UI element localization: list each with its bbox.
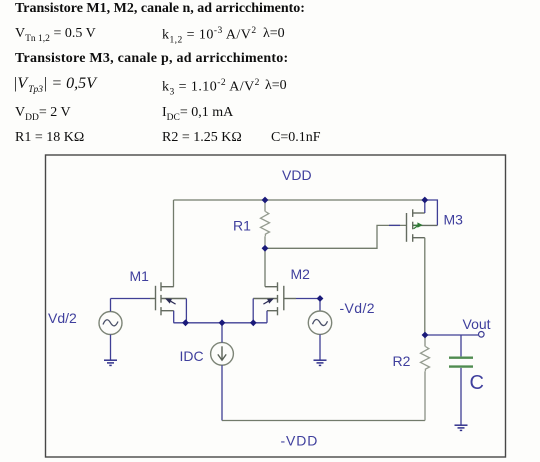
wire M1 bulk down [185, 299, 187, 323]
wire R1 node to M2 drain [264, 248, 266, 286]
wire M1 gate [111, 298, 151, 300]
wire capacitor bottom lead [460, 368, 462, 425]
transistor M3 [407, 209, 438, 242]
arrow M2 bulk (NMOS) [263, 298, 274, 304]
svg-text:R1: R1 [233, 218, 251, 234]
wire M2 bulk down [252, 299, 254, 323]
wire V2 bottom to ground [319, 335, 321, 361]
wire -VDD bottom rail [222, 420, 425, 422]
svg-text:-Vd/2: -Vd/2 [340, 300, 375, 316]
svg-text:-VDD: -VDD [281, 433, 319, 449]
wire M1 drain to rail [173, 200, 175, 287]
wire R1 bottom pin [264, 236, 266, 248]
wire M3 source pin to rail [424, 200, 426, 213]
wire rail corner to M3 bulk [425, 200, 438, 225]
svg-text:VDD: VDD [282, 167, 312, 183]
parameter line 2: VTn [15, 26, 96, 44]
junction node M3 source at rail [421, 197, 428, 204]
parameter line 2: lambda [263, 26, 285, 42]
parameter line 2: k12 [162, 26, 257, 45]
svg-text:Vd/2: Vd/2 [48, 310, 77, 326]
wire capacitor top lead [460, 335, 462, 356]
resistor R2 [421, 347, 430, 372]
parameter line 5: IDC [162, 105, 233, 123]
capacitor C plates (green) [449, 357, 473, 359]
source V2 -Vd/2 [308, 311, 331, 334]
junction node IDC at tail [219, 319, 226, 326]
arrow M1 bulk (NMOS) [165, 298, 176, 304]
wire R2 top pin [424, 335, 426, 347]
svg-text:C: C [470, 372, 484, 394]
resistor R1 [261, 212, 270, 237]
junction node output [422, 332, 429, 339]
wire VDD top rail [174, 199, 425, 201]
wire V1 bottom to ground [110, 335, 112, 360]
title line 1 [15, 1, 305, 17]
title line 3 [15, 51, 288, 67]
wire output node to Vout terminal [425, 334, 478, 336]
wire IDC bottom to -VDD rail [221, 365, 223, 420]
transistor M1 [150, 282, 186, 315]
wire navy segment on M3 gate feed [389, 224, 400, 226]
svg-text:Vout: Vout [463, 316, 491, 332]
svg-text:M2: M2 [291, 266, 311, 282]
junction node M1 bulk at tail [182, 319, 189, 326]
parameter line 6: R1 [15, 130, 84, 146]
svg-text:IDC: IDC [180, 348, 204, 364]
ground of C [455, 425, 468, 430]
wire tail node [174, 322, 268, 324]
parameter line 6: C [271, 130, 321, 146]
arrow M3 bulk (PMOS, green) [413, 222, 423, 228]
wire M1 source down [173, 311, 175, 323]
parameter line 6: R2 [162, 130, 242, 146]
svg-text:M3: M3 [444, 212, 464, 228]
wire M3 drain down to output node [424, 238, 426, 335]
parameter line 4: lambda [265, 78, 287, 94]
wire R2 bottom pin [424, 371, 426, 420]
terminal Vout [479, 332, 485, 338]
junction node R1 bottom [262, 245, 269, 252]
junction node M2 gate / V2 [317, 295, 324, 302]
wire M2 source down [266, 311, 268, 323]
parameter line 4: k3 [162, 78, 260, 97]
svg-text:M1: M1 [130, 268, 150, 284]
wire M2 gate to source V2 [296, 299, 320, 312]
current source IDC [211, 342, 234, 365]
schematic frame [46, 155, 506, 457]
ground of V2 [314, 360, 327, 365]
ground of V1 [104, 360, 117, 365]
junction node R1 top [262, 197, 269, 204]
wire R1 top pin [264, 200, 266, 212]
junction node M2 bulk at tail [250, 319, 257, 326]
transistor M2 [253, 282, 296, 315]
wire R1 node to M3 gate [265, 225, 407, 248]
svg-text:R2: R2 [393, 353, 411, 369]
parameter line 4: VTp3 equation [13, 75, 96, 95]
wire IDC top pin [221, 323, 223, 343]
wire V1 top pin [110, 299, 112, 312]
source V1 Vd/2 [99, 312, 122, 335]
parameter line 5: VDD [15, 105, 71, 123]
